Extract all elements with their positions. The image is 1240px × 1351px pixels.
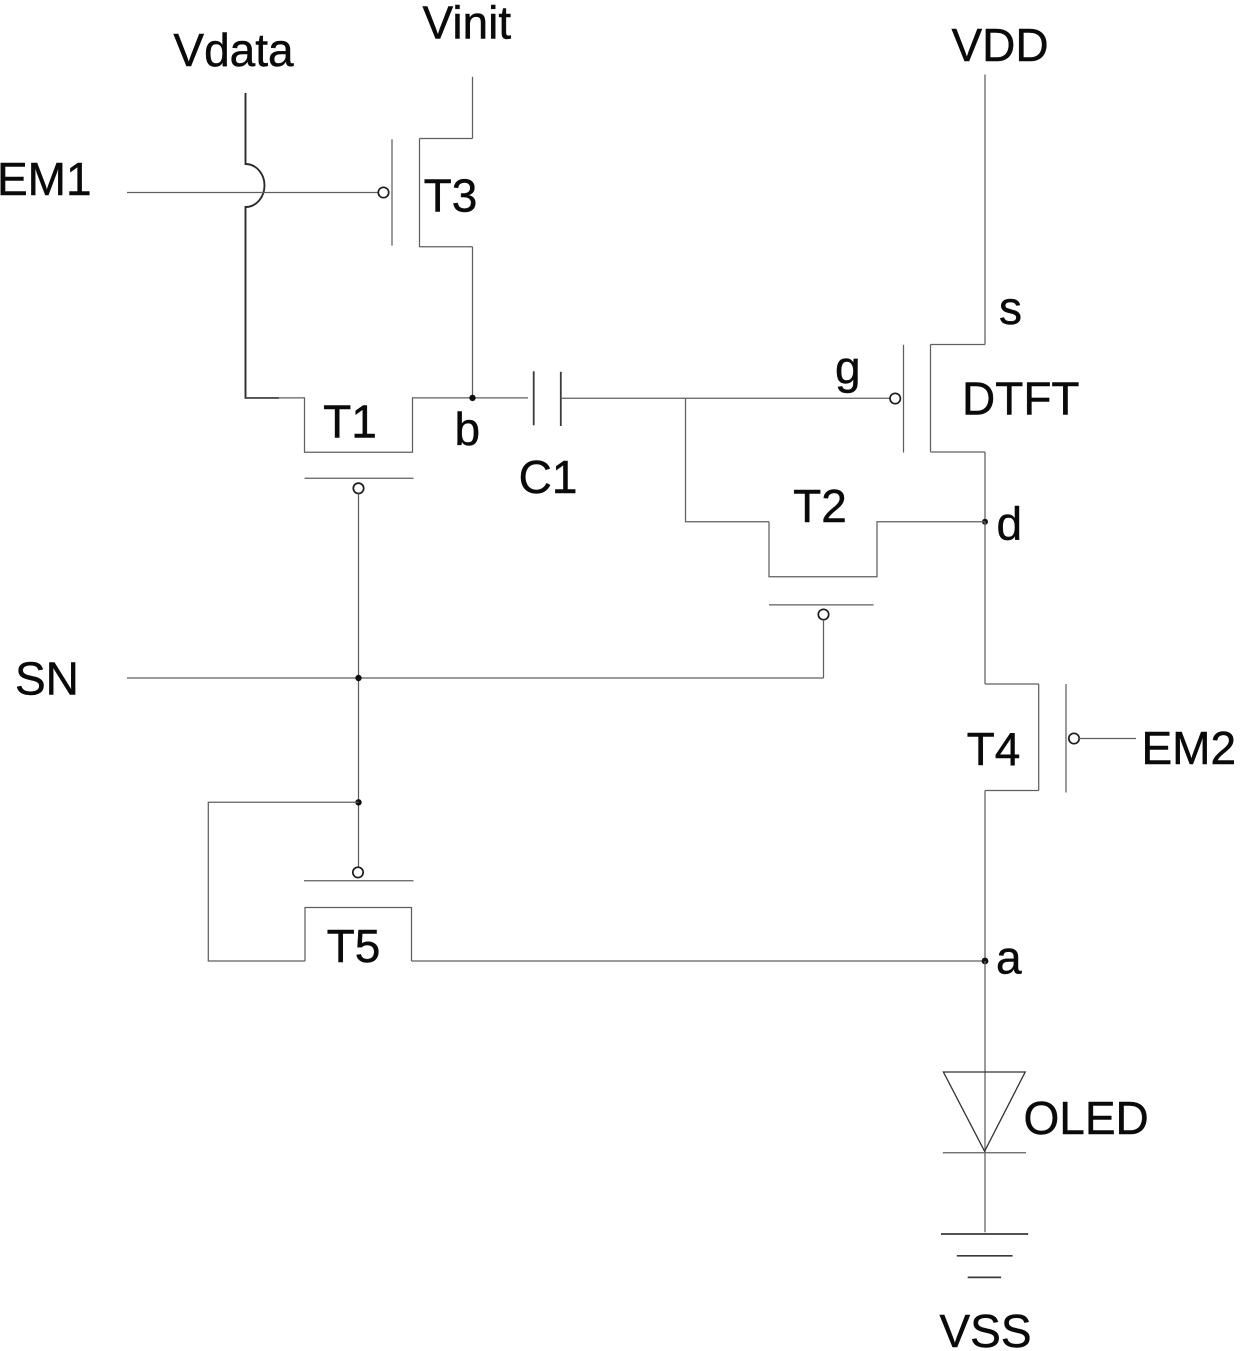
T3 gate circle — [378, 187, 388, 197]
DTFT drain lead — [931, 451, 986, 453]
T2 gate circle — [818, 609, 828, 619]
C1 left plate — [533, 371, 535, 425]
wire T5 drain to node a — [412, 960, 986, 962]
svg-text:EM2: EM2 — [1142, 722, 1237, 774]
svg-text:Vdata: Vdata — [173, 24, 294, 76]
DTFT channel bar — [930, 344, 932, 452]
wire SN line — [127, 677, 824, 679]
svg-text:g: g — [835, 342, 861, 394]
T5 gate circle — [353, 867, 363, 877]
ground bar 3 — [968, 1276, 1001, 1278]
wire DTFT drain to node d — [984, 452, 986, 522]
wire EM1 to T3 gate — [127, 192, 378, 194]
T4 gate bar — [1065, 684, 1067, 793]
svg-text:SN: SN — [15, 653, 79, 705]
wire node d to T4 — [984, 522, 986, 684]
T1 gate circle — [353, 483, 363, 493]
T5 gate bar — [304, 880, 414, 882]
T3 gate bar — [391, 139, 393, 245]
OLED cathode bar — [943, 1152, 1026, 1154]
T3 source lead — [420, 246, 473, 248]
svg-text:T4: T4 — [967, 723, 1021, 775]
DTFT source lead — [931, 344, 986, 346]
T5 channel — [305, 908, 412, 962]
wire T1 gate down — [358, 494, 360, 868]
DTFT gate bar — [903, 345, 905, 453]
svg-text:T3: T3 — [424, 170, 478, 222]
transistor T4 — [967, 684, 1080, 793]
svg-text:s: s — [999, 282, 1022, 334]
node a — [982, 958, 989, 965]
T3 drain lead — [420, 138, 473, 140]
T2 gate bar — [769, 604, 874, 606]
transistor T3 — [378, 139, 477, 248]
wire Vinit lead — [472, 77, 474, 139]
transistor T1 — [246, 396, 529, 494]
ground bar 1 — [941, 1233, 1028, 1235]
svg-text:C1: C1 — [519, 451, 578, 503]
ground bar 2 — [957, 1255, 1013, 1257]
wire C1 to DTFT gate — [561, 397, 890, 399]
node d — [982, 519, 988, 525]
wire T4 gate to EM2 — [1079, 738, 1136, 740]
transistor T5 — [304, 867, 414, 972]
wire node a to OLED — [984, 961, 986, 1232]
wire Vdata lead with hop over EM1 — [246, 93, 280, 398]
svg-text:OLED: OLED — [1024, 1092, 1149, 1144]
T1 gate bar — [305, 477, 414, 479]
C1 right plate — [560, 372, 562, 426]
junction SN x gate — [355, 675, 361, 681]
svg-text:EM1: EM1 — [0, 153, 92, 205]
svg-text:DTFT: DTFT — [962, 373, 1080, 425]
T1 channel — [246, 398, 529, 452]
T3 channel bar — [419, 139, 421, 248]
T4 gate circle — [1069, 733, 1079, 743]
svg-text:VDD: VDD — [951, 19, 1048, 71]
T4 source lead — [985, 683, 1039, 685]
wire T3 to node b — [472, 247, 474, 398]
T4 channel bar — [1038, 684, 1040, 791]
capacitor C1 — [519, 371, 578, 503]
wire VDD to DTFT source — [984, 75, 986, 345]
node b — [469, 395, 475, 401]
wire gate branch down to T2 — [686, 398, 770, 522]
junction T5 branch — [355, 799, 361, 805]
T2 channel — [769, 522, 985, 577]
wire T2 gate to SN — [823, 620, 825, 678]
svg-text:VSS: VSS — [939, 1305, 1031, 1351]
OLED anode triangle — [943, 1072, 1025, 1151]
DTFT gate circle — [890, 393, 900, 403]
svg-text:T1: T1 — [323, 396, 377, 448]
svg-text:d: d — [997, 498, 1023, 550]
svg-text:b: b — [455, 403, 481, 455]
svg-text:T5: T5 — [327, 920, 381, 972]
transistor DTFT — [890, 344, 1080, 452]
wire T4 drain to node a — [984, 791, 986, 962]
diode OLED — [943, 1072, 1149, 1153]
svg-text:a: a — [996, 932, 1022, 984]
wire branch to T5 source — [208, 802, 358, 961]
T4 drain lead — [985, 790, 1039, 792]
ground symbol — [941, 1234, 1028, 1277]
svg-text:T2: T2 — [793, 480, 847, 532]
transistor T2 — [769, 480, 985, 620]
svg-text:Vinit: Vinit — [422, 0, 511, 49]
